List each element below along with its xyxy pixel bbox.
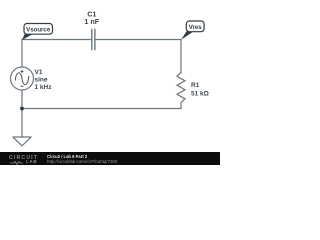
svg-text:Vsource: Vsource <box>26 26 51 33</box>
svg-text:1 nF: 1 nF <box>84 17 99 26</box>
svg-text:51 kΩ: 51 kΩ <box>191 91 209 98</box>
svg-text:R1: R1 <box>191 82 200 89</box>
svg-text:sine: sine <box>35 77 48 84</box>
svg-text:1 kHz: 1 kHz <box>35 84 53 91</box>
svg-text:V1: V1 <box>35 69 43 76</box>
svg-text:Vres: Vres <box>189 24 202 31</box>
